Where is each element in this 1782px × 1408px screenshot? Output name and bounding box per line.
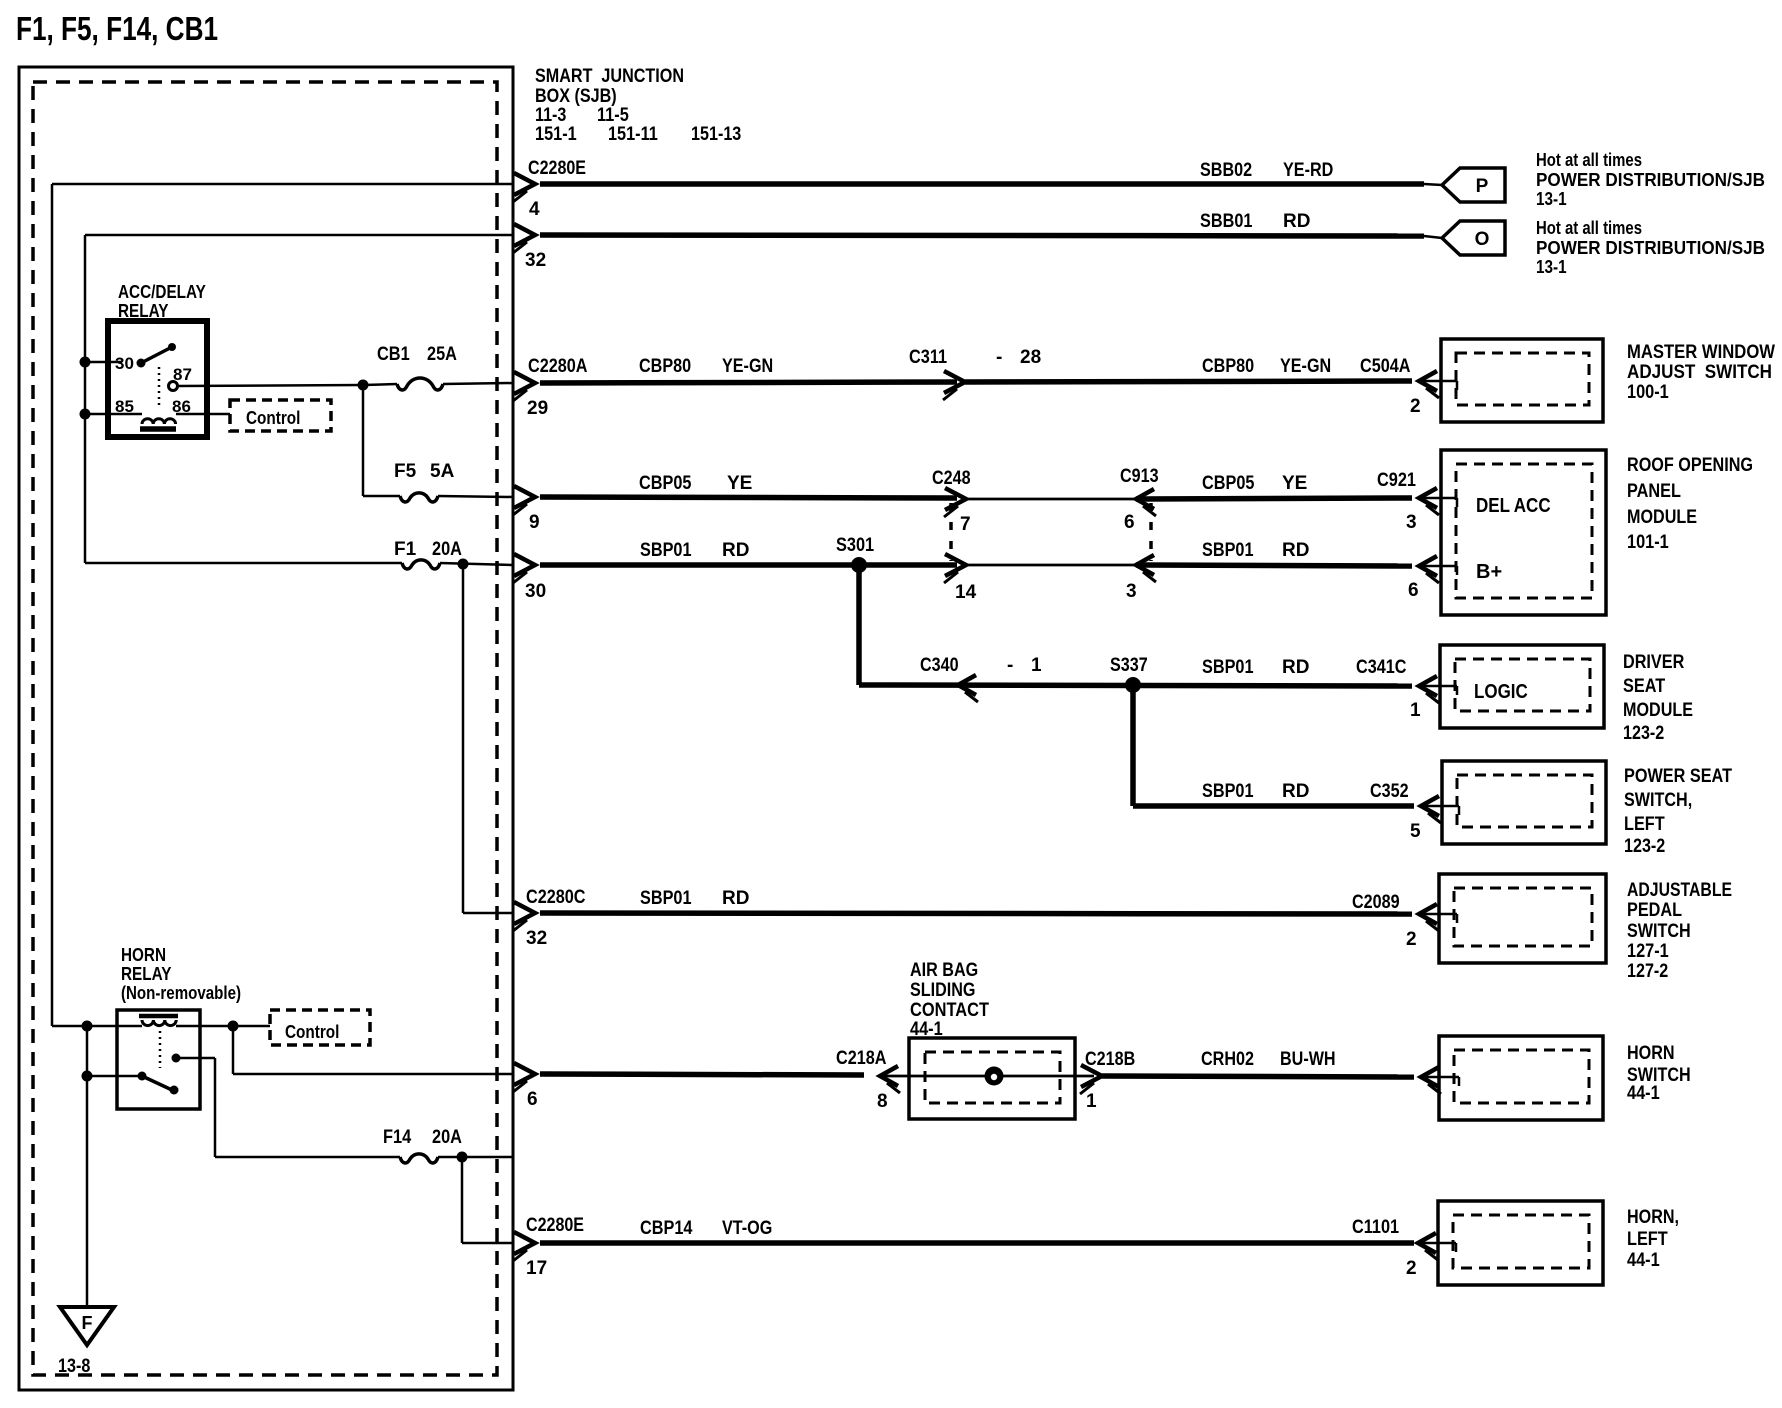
wire S337 to power seat switch	[1133, 803, 1414, 809]
svg-text:C921: C921	[1377, 470, 1416, 491]
connector C2280C pin 32 arrow	[514, 902, 535, 924]
relay pin 87 contact	[169, 382, 178, 391]
connector pin 30 arrow	[514, 554, 535, 576]
svg-text:SBP01: SBP01	[640, 540, 692, 561]
wire SBB02 inside SJB	[52, 183, 513, 186]
svg-text:C1101: C1101	[1352, 1217, 1399, 1238]
svg-text:RD: RD	[722, 540, 749, 561]
svg-text:32: 32	[526, 928, 547, 949]
svg-text:YE-RD: YE-RD	[1283, 160, 1333, 181]
svg-text:151-13: 151-13	[691, 124, 741, 145]
wire to relay pin 30	[85, 361, 122, 364]
svg-text:F1, F5, F14, CB1: F1, F5, F14, CB1	[16, 10, 218, 47]
svg-text:MODULE: MODULE	[1627, 507, 1697, 528]
wire CBP14 VT-OG	[540, 1240, 1414, 1246]
svg-text:LEFT: LEFT	[1627, 1229, 1668, 1250]
svg-text:151-1: 151-1	[535, 124, 577, 145]
wire CRH02 inside SJB	[233, 1073, 513, 1076]
wire SBB01 feeder to F1 fuse	[85, 562, 402, 565]
splice S301	[851, 557, 867, 573]
connector C921 pin 3 arrow	[1419, 488, 1437, 508]
wire SBP01 RD left segment	[540, 562, 957, 568]
stub into roof opening panel module (DEL ACC)	[1419, 497, 1457, 500]
svg-text:F14: F14	[383, 1127, 412, 1148]
wire F5 to pin 9	[438, 496, 513, 497]
svg-text:YE: YE	[727, 473, 752, 494]
svg-text:(Non-removable): (Non-removable)	[121, 983, 241, 1003]
svg-text:O: O	[1475, 229, 1490, 250]
in-line connector C913 pin 3 arrow	[1136, 555, 1154, 575]
svg-text:11-5: 11-5	[597, 105, 629, 126]
wire SBP01 between C248 and C913	[966, 564, 1136, 567]
wire F1 to pin 30	[440, 563, 513, 565]
svg-text:30: 30	[525, 581, 546, 602]
svg-text:Control: Control	[285, 1022, 339, 1042]
connector C248 dashed line	[949, 503, 953, 561]
node junction ground feeder at relay common	[82, 1071, 93, 1082]
svg-text:ADJUST SWITCH: ADJUST SWITCH	[1627, 362, 1772, 383]
relay horn box	[117, 1010, 200, 1109]
svg-text:127-2: 127-2	[1627, 961, 1668, 982]
wire horn relay contact output	[176, 1058, 215, 1157]
svg-text:C2280E: C2280E	[528, 158, 586, 179]
svg-text:CRH02: CRH02	[1201, 1049, 1254, 1070]
wire F1 junction branch down	[462, 564, 465, 913]
svg-text:14: 14	[955, 582, 977, 603]
svg-text:-: -	[1007, 655, 1013, 676]
wire S337 branch down	[1130, 685, 1136, 806]
in-line connector C311 pin 28 arrow	[944, 371, 965, 393]
connector label C340 - 1	[920, 655, 1042, 676]
connector C352 pin 5 arrow	[1421, 796, 1439, 816]
svg-text:SBB02: SBB02	[1200, 160, 1252, 181]
svg-text:DEL ACC: DEL ACC	[1476, 495, 1551, 517]
connector pin 6 arrow (CRH02)	[514, 1063, 535, 1085]
wire CRH02 BU-WH left segment	[540, 1074, 864, 1075]
svg-text:123-2: 123-2	[1623, 723, 1664, 744]
wire CBP05 YE right segment	[1136, 498, 1412, 499]
wire to relay pin 85	[85, 413, 142, 416]
component box driver seat module	[1440, 645, 1604, 728]
smart junction box inner dashed border	[33, 82, 497, 1375]
wire relay pin 87 output	[177, 385, 363, 386]
component box horn switch	[1439, 1036, 1603, 1120]
svg-text:6: 6	[1408, 580, 1419, 601]
connector C504A pin 2 arrow	[1419, 371, 1437, 391]
svg-text:B+: B+	[1476, 561, 1502, 583]
svg-text:30: 30	[115, 354, 134, 373]
svg-text:29: 29	[527, 398, 548, 419]
circuit breaker CB1 25A	[397, 378, 443, 390]
svg-text:ACC/DELAY: ACC/DELAY	[118, 282, 206, 302]
svg-text:127-1: 127-1	[1627, 941, 1669, 962]
wire CRH02 through sliding contact	[880, 1075, 1094, 1078]
node junction control / CRH02 branch	[228, 1021, 239, 1032]
relay pin 30 contact	[137, 359, 146, 368]
svg-text:RD: RD	[1282, 540, 1309, 561]
label horn left	[1627, 1207, 1679, 1271]
vertical feeder wire from SBB02 pin 4	[51, 184, 54, 1026]
svg-text:C2280A: C2280A	[528, 356, 588, 377]
component box horn left	[1438, 1201, 1603, 1285]
svg-text:3: 3	[1406, 512, 1417, 533]
stub into horn left	[1418, 1242, 1456, 1245]
wire to pin 32 (C2280C)	[463, 912, 513, 915]
control box (ACC relay)	[230, 400, 331, 431]
wire CBP05 YE left segment	[540, 497, 957, 498]
wire CBP80 YE-GN right segment	[965, 381, 1412, 382]
svg-text:ROOF OPENING: ROOF OPENING	[1627, 455, 1753, 476]
in-line connector C248 pin 14 arrow	[945, 554, 966, 576]
stub into horn switch	[1421, 1076, 1459, 1079]
svg-text:PANEL: PANEL	[1627, 481, 1681, 502]
svg-text:YE-GN: YE-GN	[722, 356, 773, 377]
svg-text:C341C: C341C	[1356, 657, 1407, 678]
node junction on SBB01 feeder at pin 85 wire	[80, 409, 91, 420]
svg-text:Hot at all times: Hot at all times	[1536, 150, 1642, 170]
svg-text:SBP01: SBP01	[1202, 540, 1254, 561]
svg-text:CBP05: CBP05	[639, 473, 692, 494]
svg-text:HORN,: HORN,	[1627, 1207, 1679, 1228]
connector pin 32 arrow	[514, 224, 535, 246]
label power seat switch left	[1624, 766, 1732, 857]
svg-text:2: 2	[1410, 396, 1421, 417]
svg-text:C248: C248	[932, 468, 971, 489]
svg-text:100-1: 100-1	[1627, 382, 1669, 403]
horn relay switch blade	[142, 1076, 179, 1095]
stub into driver seat module	[1419, 685, 1457, 688]
wire SBP01 RD pedal segment	[540, 913, 1412, 914]
svg-text:SWITCH: SWITCH	[1627, 921, 1691, 942]
svg-text:RD: RD	[1283, 211, 1310, 232]
wire horn relay output to F14	[215, 1156, 400, 1159]
svg-text:151-11: 151-11	[608, 124, 658, 145]
svg-text:F5: F5	[394, 461, 417, 482]
node junction F1 output	[458, 559, 469, 570]
component box master window adjust switch	[1441, 339, 1603, 422]
splice S337	[1125, 677, 1141, 693]
svg-text:ADJUSTABLE: ADJUSTABLE	[1627, 880, 1732, 901]
svg-text:HORN: HORN	[121, 945, 166, 965]
horn relay switch pivot	[138, 1072, 147, 1081]
wire F14 junction branch down	[461, 1157, 464, 1243]
svg-text:9: 9	[529, 512, 540, 533]
wire S301 to S337	[859, 685, 1412, 686]
svg-text:5A: 5A	[430, 461, 455, 482]
stub into master window switch	[1419, 380, 1457, 383]
svg-text:123-2: 123-2	[1624, 836, 1665, 857]
stub into roof opening panel module (B+)	[1419, 565, 1457, 568]
smart junction box label	[535, 66, 741, 145]
wire SBB02 feeder to horn relay coil	[52, 1025, 142, 1028]
ground symbol F	[60, 1307, 114, 1345]
connector pin 9 arrow	[514, 486, 535, 508]
svg-text:S337: S337	[1110, 655, 1148, 676]
horn relay coil	[139, 1016, 230, 1026]
svg-text:C2280E: C2280E	[526, 1215, 584, 1236]
svg-text:MASTER WINDOW: MASTER WINDOW	[1627, 342, 1775, 363]
connector C1101 pin 2 arrow	[1418, 1233, 1436, 1253]
node junction ground feeder top	[82, 1021, 93, 1032]
svg-text:C2280C: C2280C	[526, 887, 586, 908]
component box power seat switch left	[1442, 761, 1606, 844]
wire CBP05 between C248 and C913	[966, 498, 1136, 501]
fuse F1 20A	[402, 560, 440, 569]
svg-text:RD: RD	[1282, 781, 1309, 802]
label adjustable pedal switch	[1627, 880, 1732, 982]
label driver seat module	[1623, 652, 1693, 744]
svg-text:Hot at all times: Hot at all times	[1536, 218, 1642, 238]
component box roof opening panel module	[1441, 450, 1606, 615]
svg-text:13-1: 13-1	[1536, 257, 1567, 277]
wire SBP01 RD right segment	[1136, 565, 1412, 566]
svg-text:C311: C311	[909, 347, 947, 368]
svg-text:20A: 20A	[432, 1127, 462, 1148]
svg-text:13-1: 13-1	[1536, 189, 1567, 209]
component box adjustable pedal switch	[1439, 874, 1606, 963]
svg-text:7: 7	[960, 514, 971, 535]
connector label C311 - 28	[909, 347, 1041, 368]
in-line connector C913 pin 6 arrow	[1136, 489, 1154, 509]
wire CBP80 YE-GN left segment	[540, 382, 957, 383]
svg-text:SBP01: SBP01	[1202, 781, 1254, 802]
svg-text:20A: 20A	[432, 539, 462, 560]
svg-text:DRIVER: DRIVER	[1623, 652, 1685, 673]
off-page connector O	[1424, 221, 1505, 255]
relay switch blade	[141, 343, 176, 363]
svg-text:SLIDING: SLIDING	[910, 980, 976, 1001]
svg-text:CBP80: CBP80	[1202, 356, 1254, 377]
wire SBB01 RD	[540, 235, 1424, 236]
svg-text:6: 6	[1124, 512, 1135, 533]
wire to pin 17 (C2280E)	[462, 1242, 513, 1245]
in-line connector C218B pin 1 arrow	[1081, 1065, 1102, 1087]
svg-text:32: 32	[525, 250, 546, 271]
control box (horn relay)	[270, 1010, 370, 1045]
svg-text:BU-WH: BU-WH	[1280, 1049, 1336, 1070]
connector pin arrow into horn switch	[1421, 1067, 1439, 1087]
wire junction to CB1 fuse	[363, 384, 397, 385]
svg-text:5: 5	[1410, 821, 1421, 842]
svg-text:PEDAL: PEDAL	[1627, 900, 1682, 921]
label F14 20A	[383, 1127, 462, 1148]
wire SBB02 YE-RD	[540, 181, 1424, 187]
air bag sliding contact label	[910, 960, 989, 1040]
svg-text:13-8: 13-8	[58, 1356, 90, 1377]
relay ACC/DELAY box	[108, 321, 207, 437]
svg-text:11-3: 11-3	[535, 105, 566, 126]
svg-text:MODULE: MODULE	[1623, 700, 1693, 721]
svg-text:1: 1	[1031, 655, 1042, 676]
label CB1 25A	[377, 344, 457, 365]
connector B+ pin 6 arrow	[1419, 556, 1437, 576]
connector C2280E pin 4 arrow	[514, 173, 535, 195]
connector C913 dashed line	[1149, 503, 1153, 561]
svg-text:2: 2	[1406, 929, 1417, 950]
svg-text:POWER DISTRIBUTION/SJB: POWER DISTRIBUTION/SJB	[1536, 170, 1765, 190]
sliding contact ring	[985, 1067, 1004, 1086]
svg-text:28: 28	[1020, 347, 1041, 368]
svg-text:SEAT: SEAT	[1623, 676, 1666, 697]
stub into adjustable pedal switch	[1419, 913, 1457, 916]
svg-text:S301: S301	[836, 535, 874, 556]
off-page connector P	[1424, 168, 1505, 202]
svg-text:VT-OG: VT-OG	[722, 1218, 772, 1239]
svg-text:C913: C913	[1120, 466, 1159, 487]
relay coil	[140, 419, 176, 429]
horn relay armature dotted link	[159, 1031, 162, 1068]
smart junction box outer border	[19, 67, 513, 1390]
stub into power seat switch	[1421, 805, 1459, 808]
svg-text:LOGIC: LOGIC	[1474, 681, 1528, 703]
note hot at all times (P)	[1536, 150, 1765, 209]
svg-text:1: 1	[1410, 700, 1421, 721]
svg-text:POWER DISTRIBUTION/SJB: POWER DISTRIBUTION/SJB	[1536, 238, 1765, 258]
connector C2089 pin 2 arrow	[1419, 904, 1437, 924]
label horn switch	[1627, 1043, 1691, 1104]
svg-text:RELAY: RELAY	[121, 964, 172, 984]
svg-text:2: 2	[1406, 1258, 1417, 1279]
label roof opening panel module	[1627, 455, 1753, 553]
label F1 20A	[394, 539, 462, 560]
wire SBB01 inside SJB	[85, 234, 513, 237]
svg-text:F: F	[82, 1313, 93, 1333]
svg-text:P: P	[1476, 176, 1489, 197]
fuse F5 5A	[400, 493, 438, 502]
svg-text:SMART JUNCTION: SMART JUNCTION	[535, 66, 684, 87]
svg-text:SBP01: SBP01	[1202, 657, 1254, 678]
svg-text:BOX (SJB): BOX (SJB)	[535, 86, 617, 107]
svg-text:C352: C352	[1370, 781, 1409, 802]
svg-text:YE: YE	[1282, 473, 1307, 494]
svg-text:3: 3	[1126, 581, 1137, 602]
in-line connector C248 pin 7 arrow	[945, 488, 966, 510]
svg-text:17: 17	[526, 1258, 547, 1279]
note hot at all times (O)	[1536, 218, 1765, 277]
svg-text:Control: Control	[246, 408, 300, 428]
svg-text:44-1: 44-1	[1627, 1083, 1660, 1104]
svg-text:F1: F1	[394, 539, 417, 560]
fuse F14 20A	[400, 1154, 438, 1163]
connector C341C pin 1 arrow	[1419, 676, 1437, 696]
wire ground feeder to horn relay common	[87, 1075, 142, 1078]
component box air bag sliding contact	[909, 1038, 1075, 1119]
svg-text:YE-GN: YE-GN	[1280, 356, 1331, 377]
wire coil to control box	[233, 1025, 270, 1028]
svg-text:C340: C340	[920, 655, 959, 676]
wire S301 branch down	[856, 565, 862, 685]
svg-text:CONTACT: CONTACT	[910, 1000, 989, 1021]
svg-text:C2089: C2089	[1352, 892, 1400, 913]
in-line connector C218A pin 8 arrow	[880, 1066, 898, 1086]
node junction F14 output	[457, 1152, 468, 1163]
relay armature dotted link	[158, 367, 161, 408]
horn relay label	[121, 945, 241, 1003]
svg-text:POWER SEAT: POWER SEAT	[1624, 766, 1732, 787]
wire CRH02 BU-WH right segment	[1102, 1076, 1414, 1077]
in-line connector C340 pin 1 arrow	[958, 675, 976, 695]
svg-text:4: 4	[529, 199, 540, 220]
wire F14 to SJB edge	[438, 1156, 513, 1159]
connector C2280A pin 29 arrow	[514, 372, 535, 394]
label master window adjust switch	[1627, 342, 1775, 403]
svg-text:CBP05: CBP05	[1202, 473, 1255, 494]
svg-text:1: 1	[1086, 1091, 1097, 1112]
wire relay pin 86 to control	[176, 413, 230, 416]
svg-text:6: 6	[527, 1089, 538, 1110]
ground feeder vertical wire	[86, 1026, 89, 1307]
node junction on SBB01 feeder at pin 30 wire	[80, 357, 91, 368]
svg-text:8: 8	[877, 1091, 888, 1112]
svg-text:LEFT: LEFT	[1624, 814, 1665, 835]
node junction CB1 feed	[358, 380, 369, 391]
svg-text:HORN: HORN	[1627, 1043, 1675, 1064]
label F5 5A	[394, 461, 455, 482]
svg-text:CB1: CB1	[377, 344, 410, 365]
svg-text:C504A: C504A	[1360, 356, 1411, 377]
ACC/DELAY relay label	[118, 282, 206, 321]
wire junction to F5 fuse	[363, 385, 400, 496]
svg-text:25A: 25A	[427, 344, 457, 365]
connector C2280E pin 17 arrow	[514, 1232, 535, 1254]
svg-text:AIR BAG: AIR BAG	[910, 960, 978, 981]
svg-text:-: -	[996, 347, 1002, 368]
svg-text:C218B: C218B	[1085, 1049, 1135, 1070]
vertical feeder wire from SBB01 pin 32	[84, 235, 87, 563]
horn relay upper contact	[172, 1054, 181, 1063]
svg-text:101-1: 101-1	[1627, 532, 1669, 553]
svg-text:CBP80: CBP80	[639, 356, 691, 377]
svg-text:RD: RD	[1282, 657, 1309, 678]
svg-text:SBP01: SBP01	[640, 888, 692, 909]
svg-text:44-1: 44-1	[1627, 1250, 1660, 1271]
svg-text:C218A: C218A	[836, 1048, 887, 1069]
wire CB1 to pin 29	[443, 383, 513, 384]
svg-text:RD: RD	[722, 888, 749, 909]
svg-text:SBB01: SBB01	[1200, 211, 1253, 232]
svg-text:SWITCH,: SWITCH,	[1624, 790, 1692, 811]
svg-text:CBP14: CBP14	[640, 1218, 693, 1239]
wire control junction down to CRH02	[232, 1026, 235, 1074]
